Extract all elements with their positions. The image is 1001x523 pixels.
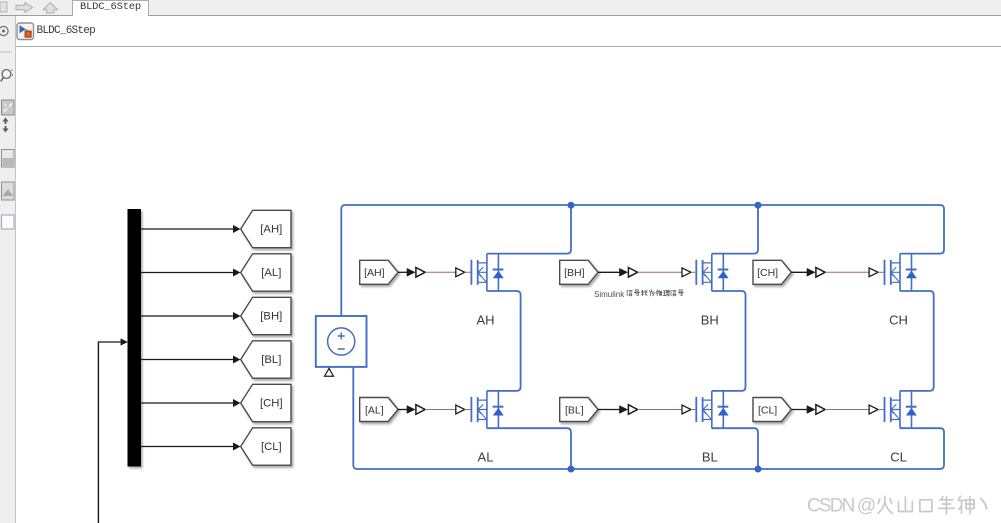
svg-text:Simulink: Simulink [594,290,625,299]
svg-text:AL: AL [478,450,494,465]
svg-text:AH: AH [476,313,494,328]
svg-text:[CH]: [CH] [260,398,283,410]
svg-text:[BH]: [BH] [260,311,282,323]
svg-text:BL: BL [702,450,718,465]
svg-text:[CH]: [CH] [757,267,778,279]
svg-text:CH: CH [889,313,908,328]
svg-text:CL: CL [890,450,907,465]
svg-text:[CL]: [CL] [758,404,777,416]
svg-text:[AL]: [AL] [261,267,281,279]
svg-text:CSDN @: CSDN @ [807,496,875,517]
svg-text:[AL]: [AL] [365,404,384,416]
svg-text:[AH]: [AH] [364,267,385,279]
svg-text:[AH]: [AH] [260,224,282,236]
svg-text:BH: BH [701,313,719,328]
svg-text:[BH]: [BH] [564,267,585,279]
svg-text:[BL]: [BL] [261,354,281,366]
svg-text:[BL]: [BL] [565,404,584,416]
svg-text:[CL]: [CL] [261,441,282,453]
